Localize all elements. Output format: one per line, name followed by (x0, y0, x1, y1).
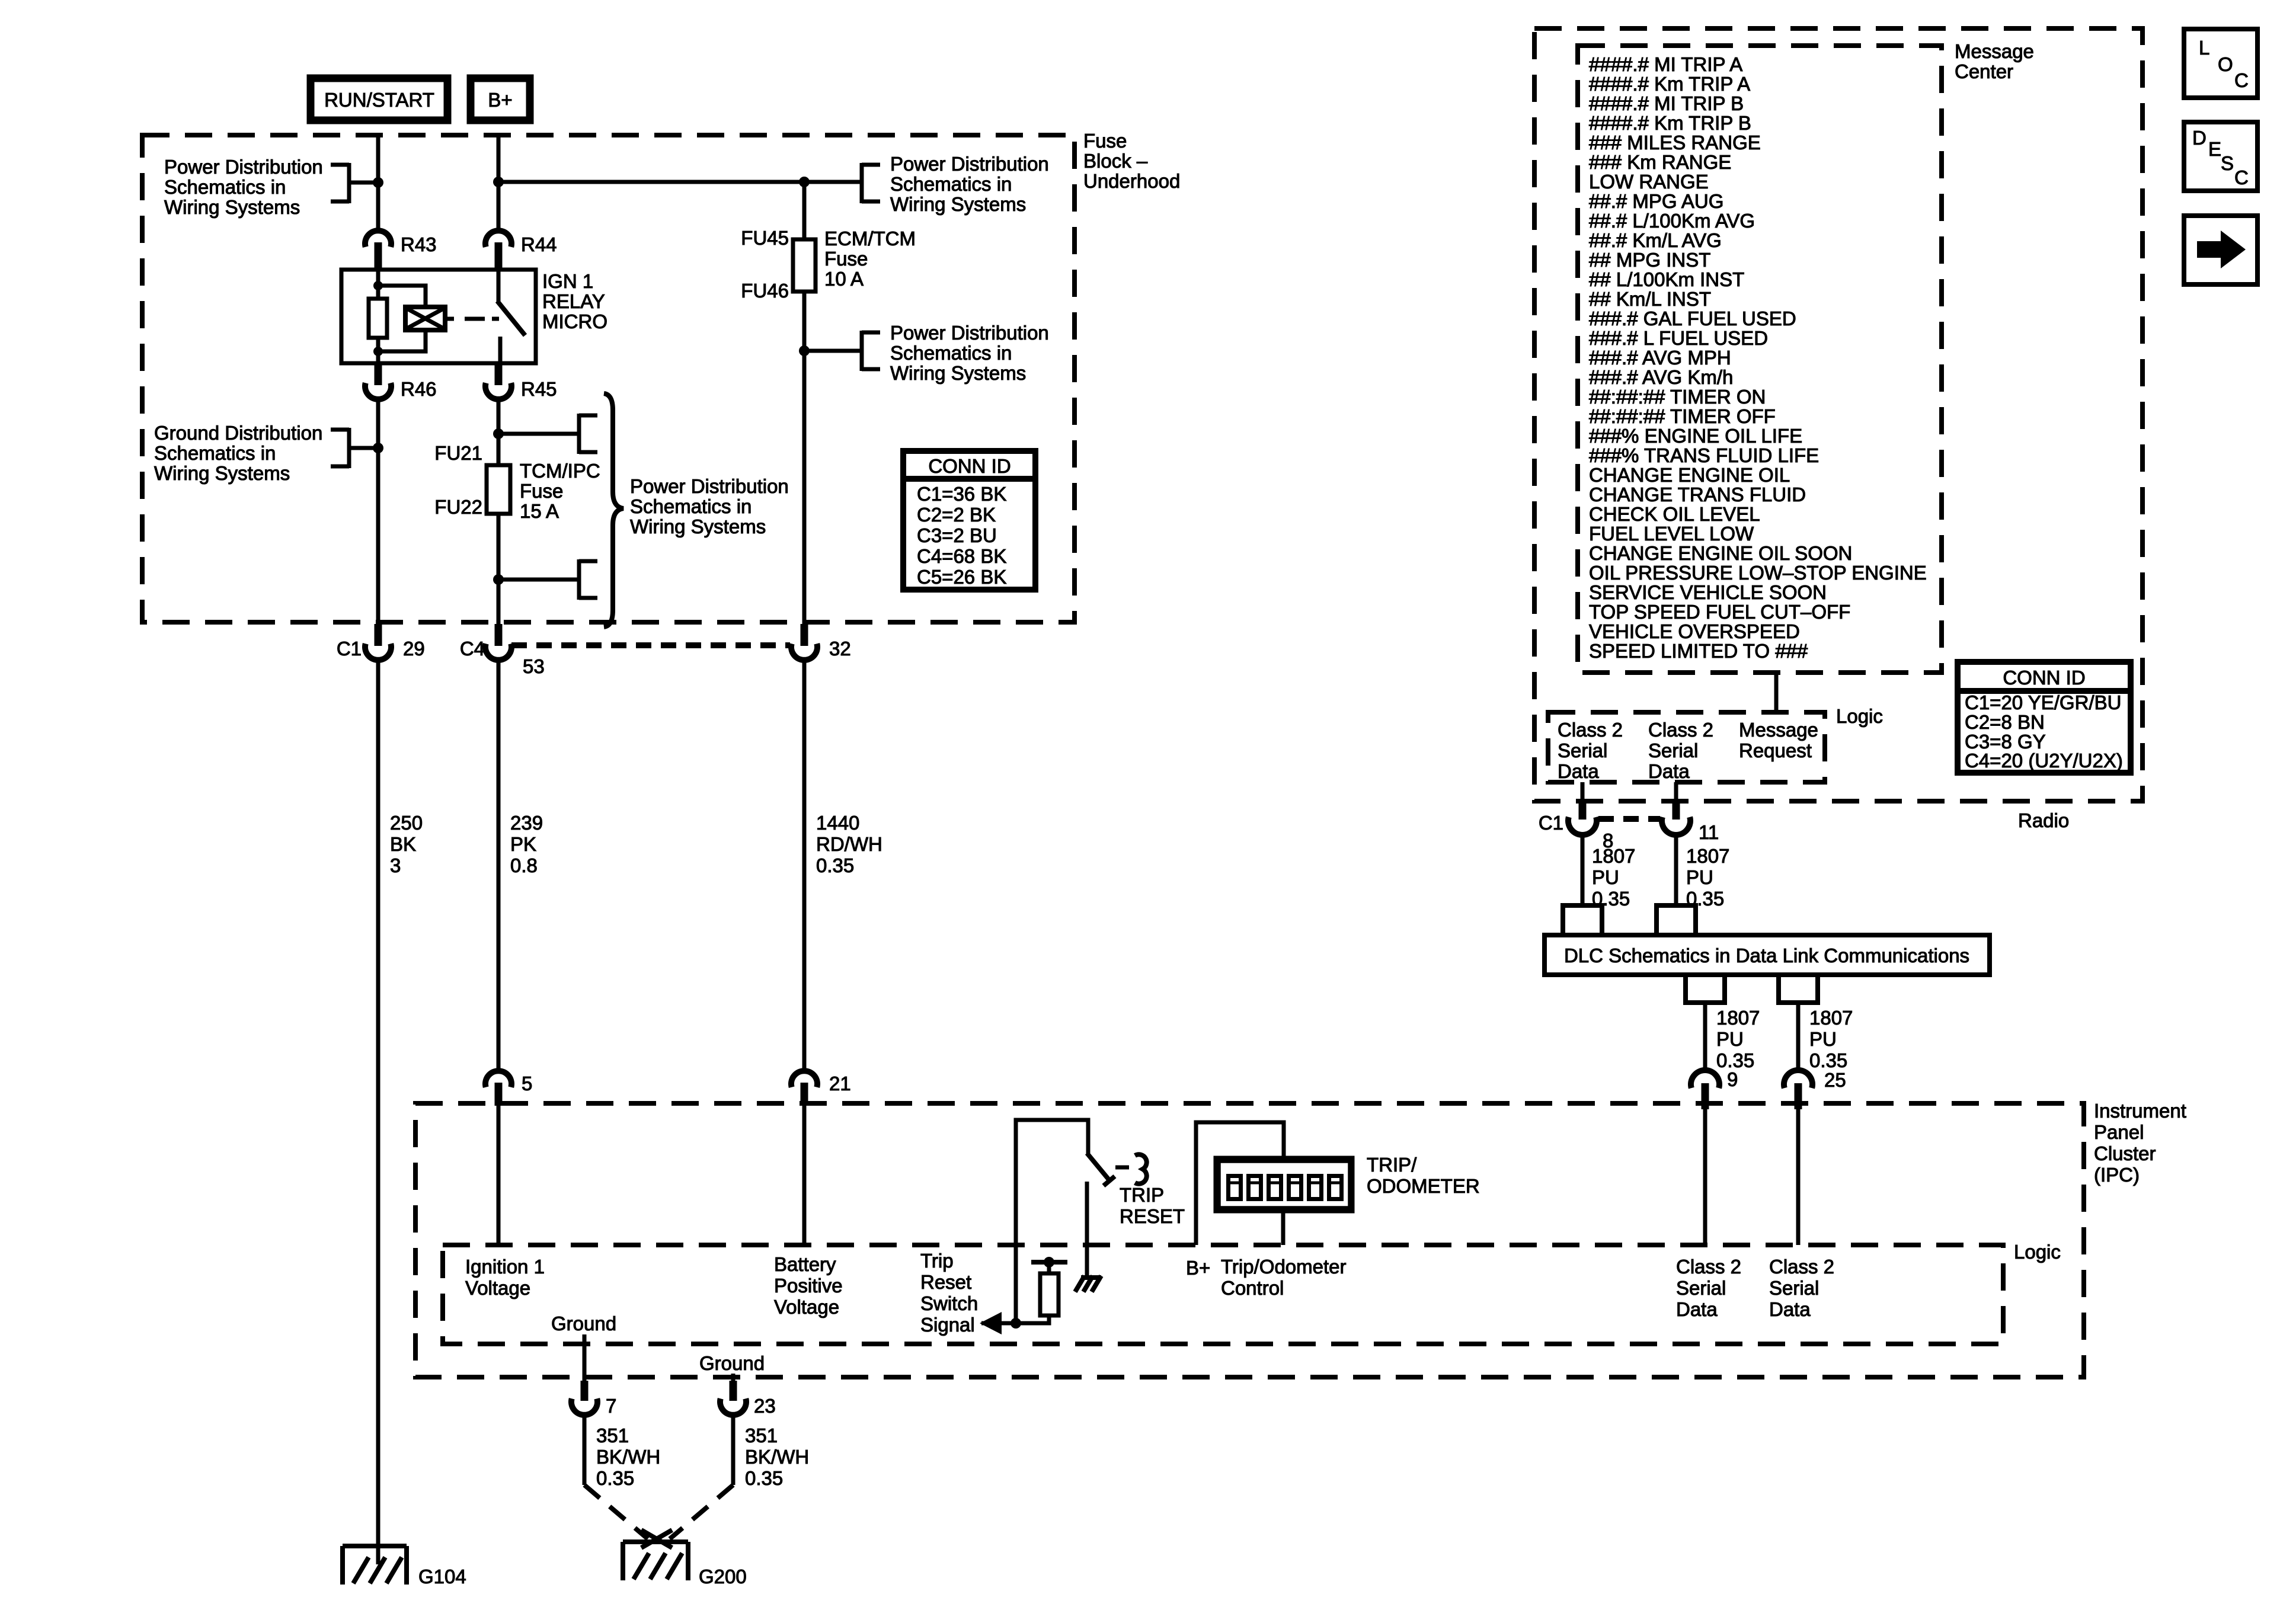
svg-text:O: O (2218, 53, 2233, 75)
svg-text:##.# Km/L AVG: ##.# Km/L AVG (1589, 229, 1722, 251)
fuse label ECM/TCM Fuse 10 A (824, 228, 916, 290)
switch TRIP RESET blade (1087, 1153, 1109, 1180)
node stub R45 upper (498, 414, 597, 454)
wire ground 2 to pin 23 (731, 1374, 736, 1382)
node DLC schematics box (1544, 935, 1990, 975)
fuse FU21/FU22 TCM/IPC (487, 465, 510, 514)
wire pin 9 into IPC (1703, 1106, 1707, 1245)
svg-text:BK/WH: BK/WH (596, 1446, 660, 1468)
svg-text:Ground Distribution: Ground Distribution (154, 422, 322, 444)
node LOC button (2184, 29, 2257, 98)
svg-text:## Km/L INST: ## Km/L INST (1589, 288, 1711, 310)
wire 239 PK 0.8 circuit (497, 660, 501, 1071)
svg-text:BK/WH: BK/WH (745, 1446, 809, 1468)
svg-text:Class 2: Class 2 (1648, 719, 1713, 741)
svg-text:0.35: 0.35 (1809, 1049, 1847, 1071)
svg-text:###.# GAL FUEL USED: ###.# GAL FUEL USED (1589, 308, 1796, 329)
svg-text:Trip: Trip (920, 1250, 954, 1272)
node label Class 2 Serial Data radio right (1648, 719, 1713, 782)
svg-text:TOP SPEED FUEL CUT–OFF: TOP SPEED FUEL CUT–OFF (1589, 601, 1850, 623)
svg-text:Ground: Ground (551, 1313, 616, 1334)
resistor relay suppression (369, 299, 387, 338)
svg-text:Wiring Systems: Wiring Systems (154, 462, 290, 484)
wire switch to chassis ground (1085, 1182, 1089, 1278)
connector pin 11 radio (1662, 800, 1719, 843)
wire coil loop bottom (378, 330, 426, 351)
fuse label TCM/IPC Fuse 15 A (520, 460, 600, 522)
node label Power Distribution mid-right (890, 322, 1049, 384)
wire dashed connector bus C4 to 32 (511, 642, 790, 648)
svg-text:Fuse: Fuse (520, 480, 563, 502)
node junction dot B+ branch (493, 177, 504, 187)
svg-text:Wiring Systems: Wiring Systems (890, 362, 1026, 384)
wire label 250 BK 3 (390, 812, 423, 876)
wire label 1440 RD/WH 0.35 (816, 812, 882, 876)
svg-text:FU45: FU45 (741, 227, 789, 249)
node splice staple pin 25 (1779, 975, 1818, 1003)
svg-text:21: 21 (829, 1073, 851, 1094)
node label Trip Reset Switch Signal (920, 1250, 978, 1336)
svg-text:Schematics in: Schematics in (164, 176, 286, 198)
node Instrument Panel Cluster dashed box (415, 1103, 2084, 1377)
node splice staple pin 8 (1563, 905, 1602, 935)
svg-text:PU: PU (1592, 866, 1619, 888)
svg-text:C4=68 BK: C4=68 BK (917, 545, 1006, 567)
node junction dot lower stub FU22 (493, 574, 504, 585)
svg-text:Fuse: Fuse (824, 248, 868, 270)
svg-text:250: 250 (390, 812, 423, 834)
svg-text:Battery: Battery (774, 1253, 836, 1275)
wire DLC to pin 9 (1703, 1003, 1707, 1071)
svg-text:RELAY: RELAY (542, 290, 605, 312)
svg-text:D: D (2192, 127, 2207, 149)
svg-text:1440: 1440 (816, 812, 859, 834)
svg-text:### Km RANGE: ### Km RANGE (1589, 151, 1731, 173)
svg-text:CHECK OIL LEVEL: CHECK OIL LEVEL (1589, 503, 1760, 525)
svg-text:Voltage: Voltage (774, 1296, 839, 1318)
svg-text:RD/WH: RD/WH (816, 833, 882, 855)
svg-text:(IPC): (IPC) (2094, 1164, 2140, 1186)
display TRIP/ODOMETER (1216, 1158, 1352, 1211)
node label Instrument Panel Cluster (2094, 1100, 2186, 1186)
svg-text:C: C (2234, 69, 2249, 91)
wire radio logic to connector pin 11 (1674, 782, 1678, 801)
ground chassis IPC (1075, 1276, 1101, 1292)
wire label 1807 PU 0.35 pin 11 (1686, 845, 1729, 910)
connector pin 7 (571, 1381, 616, 1417)
node splice staple pin 9 (1686, 975, 1725, 1003)
svg-text:R44: R44 (521, 233, 557, 255)
svg-text:####.# Km TRIP B: ####.# Km TRIP B (1589, 112, 1751, 134)
svg-text:###% TRANS FLUID LIFE: ###% TRANS FLUID LIFE (1589, 444, 1819, 466)
node CONN ID table radio (1958, 662, 2131, 773)
relay IGN 1 RELAY MICRO box (341, 270, 536, 363)
svg-text:Underhood: Underhood (1083, 170, 1180, 192)
wire pin 21 to logic Battery Positive Voltage (802, 1106, 807, 1245)
svg-text:TRIP/: TRIP/ (1367, 1154, 1417, 1176)
wire trip reset switch loop (1016, 1120, 1088, 1323)
node label Class 2 Serial Data radio left (1558, 719, 1623, 782)
svg-text:PU: PU (1686, 866, 1713, 888)
svg-text:RESET: RESET (1120, 1205, 1185, 1227)
svg-text:CHANGE TRANS FLUID: CHANGE TRANS FLUID (1589, 484, 1806, 505)
connector R44 (485, 231, 557, 270)
wire 1440 RD/WH 0.35 circuit (802, 660, 807, 1071)
relay label (542, 270, 607, 332)
svg-text:Instrument: Instrument (2094, 1100, 2186, 1122)
svg-text:ECM/TCM: ECM/TCM (824, 228, 916, 249)
node B+ feed box (471, 78, 530, 120)
svg-text:C4: C4 (460, 638, 485, 660)
node pull-up bar (1031, 1257, 1067, 1273)
svg-text:FU46: FU46 (741, 280, 789, 302)
svg-text:Positive: Positive (774, 1275, 843, 1297)
node label TRIP/ODOMETER (1367, 1154, 1480, 1197)
svg-text:Class 2: Class 2 (1676, 1256, 1741, 1278)
wire label 1807 PU 0.35 pin 8 (1592, 845, 1635, 910)
svg-text:Power Distribution: Power Distribution (890, 153, 1049, 175)
node arrow button (2184, 216, 2257, 284)
svg-text:C2=8 BN: C2=8 BN (1965, 711, 2045, 733)
node arrowhead trip reset switch signal (980, 1312, 1002, 1334)
svg-text:L: L (2199, 37, 2209, 59)
wire RUN/START to relay R43 (376, 135, 380, 232)
wire fuse FU46 down (802, 292, 807, 625)
svg-text:OIL PRESSURE LOW–STOP ENGINE: OIL PRESSURE LOW–STOP ENGINE (1589, 562, 1927, 584)
wire dashed splice to G200 right (670, 1485, 733, 1539)
svg-text:Wiring Systems: Wiring Systems (164, 196, 300, 218)
node junction dot signal (1011, 1318, 1021, 1329)
svg-text:Radio: Radio (2018, 809, 2069, 831)
node label Power Distribution upper-right (890, 153, 1049, 215)
node power distribution stub upper-right (862, 163, 880, 203)
svg-text:Trip/Odometer: Trip/Odometer (1221, 1256, 1347, 1278)
node curly brace power distribution (604, 393, 623, 627)
svg-text:FU22: FU22 (434, 496, 482, 518)
wire label 239 PK 0.8 (510, 812, 543, 876)
wire label 1807 PU 0.35 pin 9 (1716, 1007, 1760, 1071)
wire pin 23 to G200 (731, 1414, 736, 1485)
svg-text:PU: PU (1716, 1028, 1744, 1050)
svg-text:IGN 1: IGN 1 (542, 270, 593, 292)
wire DLC to pin 25 (1796, 1003, 1801, 1071)
svg-text:Wiring Systems: Wiring Systems (630, 516, 766, 537)
wire B+ to relay R44 (497, 135, 501, 232)
svg-text:Schematics in: Schematics in (630, 495, 752, 517)
wire linkage dashes (465, 317, 485, 321)
svg-text:##.# L/100Km AVG: ##.# L/100Km AVG (1589, 210, 1755, 232)
wire radio logic to connector C1 pin 8 (1581, 782, 1585, 801)
connector pin 5 IPC (485, 1071, 532, 1106)
resistor trip reset pull-up (1040, 1273, 1059, 1315)
node label Message Request (1739, 719, 1818, 761)
svg-text:R43: R43 (401, 233, 437, 255)
svg-text:BK: BK (390, 833, 416, 855)
svg-text:S: S (2221, 152, 2234, 174)
node CONN ID table fuse block (903, 451, 1035, 590)
wire relay coil left leg (376, 270, 380, 299)
svg-text:Reset: Reset (920, 1271, 971, 1293)
svg-text:SPEED LIMITED TO ###: SPEED LIMITED TO ### (1589, 640, 1808, 662)
svg-text:CONN ID: CONN ID (928, 455, 1011, 477)
svg-text:239: 239 (510, 812, 543, 834)
wire pin 7 to G200 (583, 1414, 587, 1485)
svg-text:0.35: 0.35 (816, 854, 854, 876)
svg-text:11: 11 (1699, 821, 1719, 843)
wire dashed splice to G200 left (584, 1485, 648, 1539)
svg-text:Data: Data (1769, 1298, 1811, 1320)
svg-text:C1=36 BK: C1=36 BK (917, 483, 1006, 505)
svg-text:Serial: Serial (1648, 740, 1698, 761)
connector C1 pin 8 radio (1539, 800, 1614, 852)
node power distribution stub upper-left (331, 163, 383, 203)
svg-text:Block –: Block – (1083, 150, 1148, 172)
wire label 351 BK/WH 0.35 left (596, 1425, 660, 1489)
wire label 351 BK/WH 0.35 right (745, 1425, 809, 1489)
connector pin 23 (720, 1381, 776, 1417)
svg-text:FUEL LEVEL LOW: FUEL LEVEL LOW (1589, 523, 1754, 545)
svg-text:CONN ID: CONN ID (2003, 667, 2085, 689)
svg-text:7: 7 (606, 1395, 616, 1417)
wire pin 8 to DLC (1581, 834, 1585, 905)
svg-text:Data: Data (1558, 760, 1599, 782)
wire coil loop top (378, 286, 426, 307)
connector pin 21 IPC (791, 1071, 851, 1106)
wire R46 down to C1 connector (376, 399, 380, 625)
svg-text:53: 53 (523, 655, 545, 677)
svg-text:9: 9 (1727, 1068, 1738, 1090)
svg-text:Logic: Logic (2014, 1241, 2061, 1263)
svg-text:Schematics in: Schematics in (154, 442, 276, 464)
svg-text:####.# MI TRIP B: ####.# MI TRIP B (1589, 92, 1744, 114)
wire message center to logic (1774, 673, 1779, 712)
svg-text:##:##:## TIMER OFF: ##:##:## TIMER OFF (1589, 405, 1776, 427)
wire B+ horizontal feed to ECM/TCM fuse branch (498, 180, 862, 184)
svg-text:PK: PK (510, 833, 536, 855)
svg-text:### MILES RANGE: ### MILES RANGE (1589, 132, 1761, 153)
svg-text:FU21: FU21 (434, 442, 482, 464)
node splice staple pin 11 (1657, 905, 1696, 935)
svg-text:Schematics in: Schematics in (890, 342, 1012, 364)
connector C1 pin 29 (337, 624, 425, 660)
svg-text:1807: 1807 (1716, 1007, 1760, 1029)
svg-text:0.35: 0.35 (596, 1467, 634, 1489)
svg-text:0.35: 0.35 (745, 1467, 783, 1489)
node Fuse Block Underhood dashed box (142, 135, 1075, 622)
svg-text:5: 5 (522, 1073, 532, 1094)
svg-text:C2=2 BK: C2=2 BK (917, 504, 996, 526)
node junction dot R45 upper stub (493, 428, 504, 439)
svg-text:B+: B+ (1186, 1257, 1210, 1279)
svg-text:SERVICE VEHICLE SOON: SERVICE VEHICLE SOON (1589, 581, 1827, 603)
wire coil to linkage (445, 317, 454, 321)
svg-text:VEHICLE OVERSPEED: VEHICLE OVERSPEED (1589, 620, 1800, 642)
ground G104 (343, 1546, 466, 1587)
node label Fuse Block Underhood (1083, 130, 1180, 192)
svg-text:Signal: Signal (920, 1314, 975, 1336)
connector C4 pin 53 (460, 624, 545, 677)
wire ground 1 to pin 7 (583, 1334, 587, 1382)
wire resistor bottom to signal line (981, 1315, 1049, 1323)
connector R43 (365, 231, 437, 270)
svg-text:MICRO: MICRO (542, 311, 607, 332)
ground G200 (623, 1530, 747, 1587)
wire label 1807 PU 0.35 pin 25 (1809, 1007, 1853, 1071)
svg-text:Control: Control (1221, 1277, 1284, 1299)
relay switch (497, 270, 525, 363)
svg-text:Serial: Serial (1769, 1277, 1819, 1299)
svg-text:###.# AVG Km/h: ###.# AVG Km/h (1589, 366, 1733, 388)
svg-text:G104: G104 (418, 1566, 466, 1587)
svg-text:Switch: Switch (920, 1292, 978, 1314)
node power distribution stub mid-right (804, 331, 880, 371)
switch label TRIP RESET (1120, 1184, 1185, 1227)
connector R46 (365, 363, 437, 400)
connector pin 32 (791, 624, 851, 660)
svg-text:3: 3 (390, 854, 401, 876)
node label Ground Distribution left (154, 422, 322, 484)
svg-text:Ground: Ground (699, 1352, 765, 1374)
svg-text:E: E (2208, 138, 2221, 160)
relay coil element (405, 307, 445, 330)
svg-text:TRIP: TRIP (1120, 1184, 1164, 1206)
svg-text:Wiring Systems: Wiring Systems (890, 193, 1026, 215)
svg-text:29: 29 (403, 638, 425, 660)
svg-text:Power Distribution: Power Distribution (630, 475, 789, 497)
svg-text:CHANGE ENGINE OIL SOON: CHANGE ENGINE OIL SOON (1589, 542, 1852, 564)
node label Trip/Odometer Control (1221, 1256, 1347, 1299)
svg-text:Class 2: Class 2 (1769, 1256, 1834, 1278)
wire pin 25 into IPC (1796, 1106, 1801, 1245)
svg-text:G200: G200 (699, 1566, 747, 1587)
svg-text:C5=26 BK: C5=26 BK (917, 566, 1006, 588)
svg-text:Voltage: Voltage (465, 1277, 530, 1299)
svg-text:Power Distribution: Power Distribution (164, 156, 323, 178)
node DESC button (2184, 122, 2257, 191)
svg-text:C: C (2234, 167, 2249, 188)
svg-text:Class 2: Class 2 (1558, 719, 1623, 741)
svg-text:Data: Data (1676, 1298, 1718, 1320)
wire pin 5 to logic Ignition 1 Voltage (497, 1106, 501, 1245)
svg-text:####.# Km TRIP A: ####.# Km TRIP A (1589, 73, 1750, 95)
node label Class 2 Serial Data IPC right (1769, 1256, 1834, 1320)
svg-text:C1: C1 (337, 638, 362, 660)
svg-text:R46: R46 (401, 378, 437, 400)
svg-text:Data: Data (1648, 760, 1690, 782)
svg-text:Serial: Serial (1676, 1277, 1726, 1299)
node IPC logic dashed box (443, 1245, 2003, 1344)
wire resistor bottom to box bottom (376, 338, 380, 363)
node junction dot coil top (373, 281, 383, 290)
fuse FU45/FU46 ECM/TCM (793, 239, 816, 292)
svg-text:##:##:## TIMER ON: ##:##:## TIMER ON (1589, 386, 1766, 408)
wire pin 11 to DLC (1674, 834, 1678, 905)
svg-text:##.# MPG AUG: ##.# MPG AUG (1589, 190, 1723, 212)
wire B+ branch down to fuse FU45 (802, 182, 807, 239)
svg-text:Center: Center (1955, 60, 2013, 82)
svg-text:## L/100Km INST: ## L/100Km INST (1589, 268, 1744, 290)
node ground distribution stub left (331, 428, 383, 468)
node label Power Distribution brace (630, 475, 789, 537)
svg-text:CHANGE ENGINE OIL: CHANGE ENGINE OIL (1589, 464, 1790, 486)
svg-text:Cluster: Cluster (2094, 1142, 2156, 1164)
node label Message Center (1955, 40, 2034, 82)
svg-text:TCM/IPC: TCM/IPC (520, 460, 600, 482)
wire R45 to fuse FU21 (497, 399, 501, 465)
svg-text:23: 23 (754, 1395, 776, 1417)
svg-text:ODOMETER: ODOMETER (1367, 1175, 1480, 1197)
svg-text:Fuse: Fuse (1083, 130, 1127, 152)
node RUN/START feed box (311, 78, 447, 120)
node label Power Distribution upper-left (164, 156, 323, 218)
svg-text:15 A: 15 A (520, 500, 559, 522)
svg-text:####.# MI TRIP A: ####.# MI TRIP A (1589, 53, 1742, 75)
svg-text:Message: Message (1955, 40, 2034, 62)
switch actuator symbol (1135, 1154, 1147, 1183)
wire dashed connector bus radio (1598, 816, 1660, 822)
node junction dot lower power stub (799, 345, 810, 356)
svg-text:###% ENGINE OIL LIFE: ###% ENGINE OIL LIFE (1589, 425, 1802, 447)
svg-text:###.# L FUEL USED: ###.# L FUEL USED (1589, 327, 1768, 349)
svg-text:## MPG INST: ## MPG INST (1589, 249, 1710, 271)
svg-text:###.# AVG MPH: ###.# AVG MPH (1589, 347, 1731, 369)
node label Battery Positive Voltage (774, 1253, 843, 1318)
node Radio logic dashed box (1548, 712, 1825, 782)
node junction dot coil bottom (373, 347, 383, 356)
svg-text:Schematics in: Schematics in (890, 173, 1012, 195)
svg-text:C1=20 YE/GR/BU: C1=20 YE/GR/BU (1965, 692, 2121, 713)
svg-text:25: 25 (1824, 1069, 1846, 1091)
node junction dot ECM/TCM fuse top (799, 177, 810, 187)
svg-text:1807: 1807 (1686, 845, 1729, 867)
wire B+ to trip odometer display (1196, 1122, 1284, 1245)
connector pin 9 IPC (1691, 1068, 1738, 1109)
svg-text:Request: Request (1739, 740, 1812, 761)
svg-text:Message: Message (1739, 719, 1818, 741)
svg-text:351: 351 (745, 1425, 778, 1446)
svg-text:Ignition 1: Ignition 1 (465, 1256, 545, 1278)
node label Class 2 Serial Data IPC left (1676, 1256, 1741, 1320)
svg-text:B+: B+ (488, 89, 512, 111)
svg-text:RUN/START: RUN/START (324, 89, 434, 111)
svg-text:Serial: Serial (1558, 740, 1607, 761)
svg-text:C1: C1 (1539, 812, 1563, 834)
node Message Center dashed box (1578, 46, 1942, 673)
node stub FU22 lower (498, 559, 597, 600)
svg-text:10 A: 10 A (824, 268, 864, 290)
svg-text:R45: R45 (521, 378, 557, 400)
wire 250 BK 3 circuit to G104 (376, 660, 380, 1564)
svg-text:DLC Schematics in Data Link Co: DLC Schematics in Data Link Communicatio… (1564, 945, 1969, 966)
svg-text:32: 32 (829, 638, 851, 660)
svg-text:0.8: 0.8 (510, 854, 538, 876)
node Radio dashed box (1534, 28, 2142, 801)
node label Ignition 1 Voltage (465, 1256, 545, 1299)
svg-text:PU: PU (1809, 1028, 1837, 1050)
switch linkage dash (1115, 1166, 1129, 1170)
svg-text:351: 351 (596, 1425, 629, 1446)
node message center display list (1589, 53, 1927, 662)
svg-text:Panel: Panel (2094, 1121, 2144, 1143)
svg-text:C3=2 BU: C3=2 BU (917, 524, 997, 546)
svg-text:1807: 1807 (1592, 845, 1635, 867)
svg-text:1807: 1807 (1809, 1007, 1853, 1029)
svg-text:LOW RANGE: LOW RANGE (1589, 171, 1709, 193)
wire fuse FU22 down (497, 514, 501, 625)
connector R45 (485, 363, 557, 400)
svg-text:C4=20 (U2Y/U2X): C4=20 (U2Y/U2X) (1965, 750, 2123, 772)
wire display to Trip/Odometer Control (1281, 1211, 1285, 1245)
